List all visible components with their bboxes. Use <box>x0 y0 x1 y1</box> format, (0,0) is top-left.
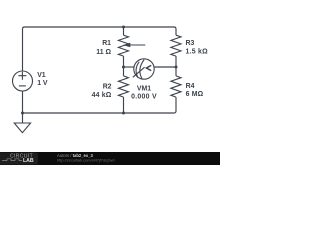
wire R3 bottom to R4 top <box>175 56 177 76</box>
watermark logo background <box>0 153 38 165</box>
svg-text:0.000 V: 0.000 V <box>131 93 157 100</box>
wire top rail with left corner and right corner <box>23 27 177 71</box>
svg-text:11 Ω: 11 Ω <box>96 49 111 56</box>
node V1/ground <box>21 112 24 115</box>
svg-text:1.5 kΩ: 1.5 kΩ <box>186 49 209 56</box>
ground <box>14 123 30 133</box>
R1 wiper arrow <box>123 43 146 48</box>
wire R1 bottom to node <box>123 56 125 76</box>
watermark logo wave <box>2 159 22 161</box>
svg-text:R1: R1 <box>102 40 111 47</box>
svg-text:1 V: 1 V <box>37 80 48 87</box>
svg-text:R4: R4 <box>186 83 195 90</box>
wire node to VM1 left <box>124 66 134 68</box>
svg-text:V1: V1 <box>37 72 46 79</box>
svg-text:R3: R3 <box>186 40 195 47</box>
watermark bar <box>0 152 220 165</box>
voltage source V1 <box>13 71 33 91</box>
label VM1 <box>131 85 157 100</box>
svg-text:VM1: VM1 <box>137 85 151 92</box>
label R4 <box>186 83 204 98</box>
wire VM1 right to node <box>154 66 176 68</box>
wire V1 bottom to bottom rail <box>22 91 24 113</box>
svg-text:44 kΩ: 44 kΩ <box>92 92 112 99</box>
node R1/R2/VM1 <box>122 66 125 69</box>
node R2/bottom rail <box>122 112 125 115</box>
resistor R1 (rheostat) <box>118 35 128 56</box>
wire bottom rail <box>23 97 177 113</box>
resistor R4 <box>171 76 181 97</box>
svg-text:LAB: LAB <box>23 158 34 164</box>
svg-text:R2: R2 <box>103 84 112 91</box>
label R1 <box>96 40 111 56</box>
wire R1 top stub <box>123 27 125 35</box>
wire R2 bottom stub <box>123 97 125 113</box>
svg-text:http://circuitlab.com/c4t7jf7d: http://circuitlab.com/c4t7jf7dq2wd <box>57 158 115 163</box>
label R2 <box>92 84 112 99</box>
svg-text:6 MΩ: 6 MΩ <box>186 91 204 98</box>
label R3 <box>186 40 209 56</box>
resistor R2 <box>118 76 128 97</box>
label V1 <box>37 72 48 87</box>
node at top rail / R1 <box>122 26 125 29</box>
resistor R3 <box>171 35 181 56</box>
voltmeter VM1 <box>133 59 154 79</box>
node R3/R4/VM1 <box>175 66 178 69</box>
wire ground stub <box>22 113 24 123</box>
